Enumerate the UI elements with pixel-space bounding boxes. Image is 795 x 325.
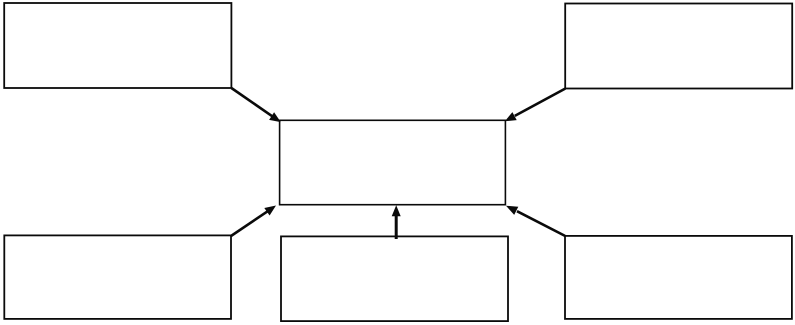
box bottom-right bbox=[565, 236, 792, 319]
arrow from bottom-right box to center box bbox=[506, 206, 565, 236]
arrow from top-left box to center box bbox=[231, 88, 280, 122]
box center bbox=[280, 120, 506, 204]
box top-right bbox=[565, 4, 792, 89]
arrow from top-right box to center box bbox=[505, 89, 566, 122]
box bottom-left bbox=[4, 235, 231, 319]
arrow from bottom-middle box to center box bbox=[392, 205, 401, 239]
box bottom-middle bbox=[281, 236, 508, 321]
box top-left bbox=[4, 3, 231, 88]
arrow from bottom-left box to center box bbox=[231, 206, 276, 237]
